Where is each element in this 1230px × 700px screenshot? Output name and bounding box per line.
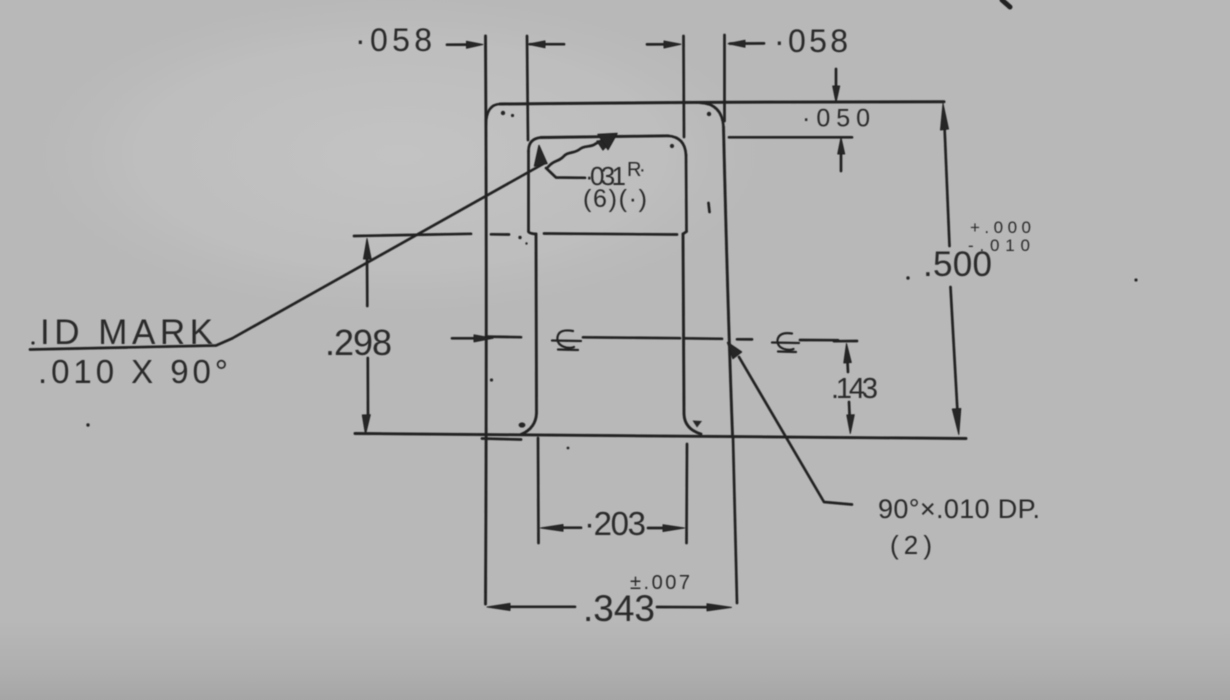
arrowhead at ID notch	[597, 141, 612, 151]
corner tangent dots and paper specks	[31, 111, 1137, 450]
ID notch (filled V in inner top edge)	[598, 134, 617, 150]
extension line above right edge (.058 right outer)	[723, 35, 726, 121]
.343 right extension line	[733, 437, 737, 603]
bottom scan shading band	[0, 620, 1230, 700]
svg-text:.143: .143	[831, 373, 878, 405]
wavy leader to ID notch	[548, 141, 601, 167]
inner cavity left wall upper / .058 left-inner extension line	[527, 36, 529, 232]
svg-text:+.000: +.000	[970, 218, 1031, 237]
svg-text:·: ·	[639, 159, 646, 181]
ID MARK leader line	[232, 164, 543, 339]
scan mark top-right corner	[1002, 0, 1010, 7]
lighter paper patch upper left-center	[20, 0, 780, 320]
bottom edge overdraw stroke	[482, 439, 521, 440]
svg-text:.343: .343	[583, 588, 655, 629]
svg-text:(2): (2)	[890, 530, 932, 560]
dimension .050: outside arrows above/below	[833, 69, 845, 171]
dimension .203: line with inside arrows	[541, 525, 685, 532]
.298 reference line extending left	[354, 234, 471, 236]
90deg note leader with arrowhead	[739, 357, 852, 505]
ID MARK leader arrowhead at inner corner	[535, 146, 548, 167]
svg-text:.298: .298	[325, 322, 392, 363]
slot left wall lower with bottom flare	[521, 234, 537, 435]
centerline symbol 2	[772, 333, 799, 352]
inner cavity top-left corner arc	[529, 138, 542, 152]
.031R leader elbow	[546, 168, 585, 178]
dimension .343: line with inside arrows	[487, 603, 732, 611]
centerline left arrow	[452, 335, 493, 342]
centerline dash segments	[486, 335, 521, 338]
dimension .143: tick, arrows	[834, 341, 857, 434]
.050 lower reference line	[729, 136, 852, 139]
outer profile top-right corner arc	[700, 103, 724, 127]
inner cavity top-right corner arc	[668, 136, 686, 155]
outer profile top-left corner arc	[486, 104, 500, 125]
svg-text:·058: ·058	[774, 23, 850, 59]
short stray tick right of inner cavity	[709, 203, 710, 212]
dimension .058 left: outside arrows	[447, 41, 564, 48]
centerline symbol 1	[552, 330, 581, 350]
part bottom edge baseline	[355, 434, 966, 439]
dimension .298 line with arrows	[362, 239, 371, 435]
svg-text:.010 X 90°: .010 X 90°	[38, 353, 228, 390]
svg-text:·058: ·058	[355, 22, 434, 58]
ID MARK underline	[30, 339, 232, 350]
svg-text:90°×.010 DP.: 90°×.010 DP.	[878, 494, 1040, 524]
slot right wall lower with bottom flare	[683, 234, 701, 434]
outer profile right edge	[724, 127, 733, 435]
dimension .500 line with arrows	[941, 104, 961, 435]
inner cavity right wall upper / .058 right-inner extension line	[684, 36, 687, 232]
svg-text:·203: ·203	[584, 505, 646, 542]
dimension .203: extension lines	[538, 438, 687, 543]
wall jog left	[529, 232, 537, 235]
svg-text:·050: ·050	[802, 105, 873, 133]
outer profile left edge and .343 left extension line	[484, 36, 488, 604]
internal step line (hidden edge)	[491, 234, 677, 235]
wall jog right	[683, 232, 687, 235]
outer profile top edge with right extension	[500, 102, 944, 104]
dimension .058 right: outside arrows	[647, 40, 764, 48]
inner cavity top edge	[541, 136, 668, 138]
